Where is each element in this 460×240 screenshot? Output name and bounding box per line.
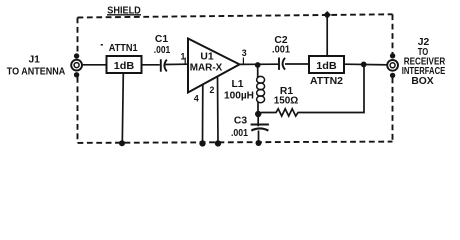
svg-text:1dB: 1dB [114, 61, 135, 72]
svg-text:3: 3 [242, 48, 247, 58]
svg-text:2: 2 [210, 85, 215, 95]
svg-text:L1: L1 [231, 79, 243, 90]
svg-text:1dB: 1dB [316, 61, 337, 72]
svg-text:BOX: BOX [411, 76, 433, 87]
svg-text:C1: C1 [155, 34, 168, 45]
svg-text:SHIELD: SHIELD [107, 5, 141, 16]
svg-text:.001: .001 [272, 45, 290, 56]
svg-text:4: 4 [194, 93, 199, 103]
svg-text:MAR-X: MAR-X [190, 62, 223, 73]
svg-text:TO ANTENNA: TO ANTENNA [7, 66, 66, 77]
svg-text:U1: U1 [200, 52, 213, 63]
svg-text:ATTN1: ATTN1 [109, 43, 138, 54]
svg-text:150Ω: 150Ω [274, 96, 299, 107]
svg-text:.001: .001 [154, 45, 171, 56]
svg-text:ATTN2: ATTN2 [310, 76, 343, 87]
svg-text:C3: C3 [234, 116, 247, 127]
svg-text:.001: .001 [231, 128, 248, 139]
svg-text:J1: J1 [28, 55, 40, 66]
svg-text:1: 1 [181, 51, 186, 61]
svg-text:100µH: 100µH [224, 91, 254, 102]
